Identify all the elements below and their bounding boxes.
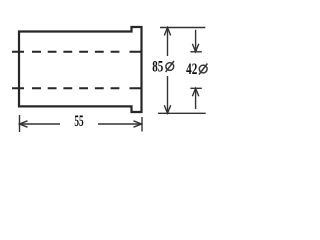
svg-text:55: 55 <box>74 112 84 130</box>
svg-text:42: 42 <box>186 60 197 77</box>
svg-text:85: 85 <box>152 58 163 75</box>
